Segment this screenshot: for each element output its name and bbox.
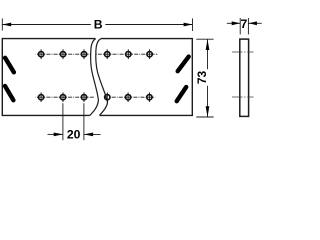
dimension 7 extension line left <box>239 18 241 34</box>
dimension B line <box>2 24 192 26</box>
dimension 20 extension line right <box>83 103 85 140</box>
hole T2 <box>60 49 65 59</box>
dimension 20 arrow right <box>84 133 93 137</box>
dimension 7 line left tail <box>227 22 240 24</box>
bottom row centerline right segment <box>110 96 156 98</box>
dimension 73 extension line bottom <box>196 116 213 118</box>
dimension 7 line right tail <box>248 22 261 24</box>
dimension 20 line left tail <box>48 133 63 135</box>
slot bottom-left <box>5 86 13 100</box>
dimension B extension line right <box>192 18 194 31</box>
hole T1 <box>38 49 43 59</box>
break line left curve <box>90 39 99 116</box>
hole T3 <box>81 49 86 59</box>
hole T4 <box>105 49 110 59</box>
dimension B arrow left <box>2 23 11 27</box>
dimension 73 arrow up <box>206 39 210 50</box>
hole B6 <box>147 92 152 102</box>
slot top-left <box>5 58 14 73</box>
side view centerline top <box>232 51 254 53</box>
hole B1 <box>38 92 43 102</box>
dimension 7 arrow right <box>248 21 257 25</box>
hole B3 <box>81 92 86 102</box>
hole B5 <box>125 92 130 102</box>
top row centerline left segment <box>36 53 91 55</box>
top row centerline right segment <box>96 53 157 55</box>
plate front view outline <box>2 38 192 116</box>
dimension 73 extension line top <box>196 38 213 40</box>
svg-text:73: 73 <box>195 71 209 85</box>
hole B4 <box>105 92 110 102</box>
hole T5 <box>126 49 131 59</box>
dimension B arrow right <box>184 23 193 27</box>
slot bottom-right <box>177 87 187 101</box>
side view centerline bottom <box>232 96 254 98</box>
dimension 73 line <box>207 39 209 117</box>
bottom row centerline left segment <box>36 96 95 98</box>
dimension 20 arrow left <box>54 133 63 137</box>
dimension 7 arrow left <box>232 21 241 25</box>
break line right curve <box>96 39 108 116</box>
hole B2 <box>60 92 65 102</box>
svg-text:7: 7 <box>241 17 248 31</box>
slot top-right <box>178 57 189 72</box>
svg-text:20: 20 <box>67 127 81 141</box>
side view outline <box>240 39 249 116</box>
dimension 20 extension line left <box>62 103 64 140</box>
svg-text:B: B <box>94 18 103 32</box>
dimension B extension line left <box>1 18 3 30</box>
hole T6 <box>147 49 152 59</box>
dimension 7 extension line right <box>247 18 249 34</box>
dimension 20 line right tail <box>84 133 101 135</box>
dimension 73 arrow down <box>206 106 210 117</box>
